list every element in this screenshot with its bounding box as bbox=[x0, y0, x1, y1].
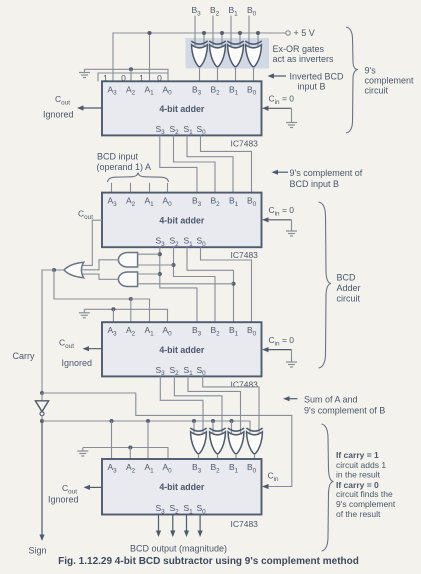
wire S2 adder4 output arrow bbox=[172, 515, 174, 535]
ground for constant 0 cells of adder1 bbox=[84, 69, 86, 73]
wire carry to adder4 Cin (jogs right) bbox=[42, 393, 292, 487]
svg-text:If carry = 1: If carry = 1 bbox=[336, 450, 379, 460]
junction dot carry node bbox=[52, 268, 56, 272]
svg-text:Ex-OR gates: Ex-OR gates bbox=[273, 44, 325, 54]
svg-text:Adder: Adder bbox=[337, 283, 361, 293]
svg-text:complement: complement bbox=[365, 76, 415, 86]
wire U10 output to adder4 B1 bbox=[235, 454, 237, 459]
wire G1 input from S2 bbox=[138, 264, 174, 266]
XOR gate U4 (inverter for B0) bbox=[246, 45, 262, 67]
junction dot control to XOR U9 bbox=[211, 419, 215, 423]
stub correction to A2 adder3 bbox=[130, 299, 132, 322]
adder4 Cout wire with arrow (ignored) bbox=[87, 486, 103, 488]
adder2 Cin = 0 wire bbox=[265, 219, 292, 221]
wire OR G3 output carry node bbox=[54, 269, 64, 271]
wire U1 output to adder1 B3 bbox=[199, 67, 201, 82]
junction dot U3 bbox=[238, 31, 242, 35]
stub operand A0 into adder2 bbox=[167, 183, 169, 193]
svg-text:BCD: BCD bbox=[337, 273, 357, 283]
inverter bubble bbox=[40, 412, 44, 416]
svg-text:of the result: of the result bbox=[336, 509, 381, 519]
adder1 Cout wire with arrow (ignored) bbox=[80, 107, 102, 109]
stub control to XOR U9 left input bbox=[212, 421, 214, 435]
junction dot S3 to AND G2 bbox=[158, 272, 162, 276]
svg-text:Carry: Carry bbox=[13, 351, 35, 361]
wire S0 adder3 to XOR U11 input bbox=[203, 376, 259, 435]
stub ground to A2 adder4 bbox=[129, 448, 131, 460]
junction dot ground to A2 adder4 bbox=[128, 445, 132, 449]
svg-text:9's: 9's bbox=[365, 66, 377, 76]
wire S3 adder4 output arrow bbox=[158, 515, 160, 535]
arrow pointing to 9's complement bus bbox=[275, 171, 289, 173]
wire S1 adder3 to XOR U10 input bbox=[188, 376, 241, 435]
inverted carry control line to XOR row2 and adder4 constants bbox=[42, 421, 250, 435]
wire carry node to left carry rail bbox=[42, 270, 54, 393]
arrow pointing to sum bus bbox=[286, 398, 298, 400]
constant input register 1 0 1 0 cells bbox=[98, 73, 168, 82]
4-bit adder U7 (IC7483) body bbox=[102, 322, 262, 376]
svg-text:9's complement of B: 9's complement of B bbox=[304, 406, 385, 416]
svg-text:BCD output (magnitude): BCD output (magnitude) bbox=[130, 544, 227, 554]
arrow pointing to inverted B bus bbox=[271, 75, 287, 77]
XOR gate U8 (conditional inverter S3) bbox=[191, 432, 207, 454]
AND gate G2 (S3·S1) bbox=[118, 272, 137, 287]
svg-text:Inverted BCD: Inverted BCD bbox=[290, 72, 345, 82]
wire B3 into XOR U1 left input bbox=[194, 16, 196, 49]
wire inverted carry rail down to Sign bbox=[41, 416, 43, 421]
svg-text:input B: input B bbox=[298, 82, 326, 92]
junction dot ground to A2 cell bbox=[129, 67, 133, 71]
XOR gate U2 (inverter for B2) bbox=[210, 45, 226, 67]
brace 9's complement circuit bbox=[346, 27, 358, 133]
wire S1 adder1 to B1 adder2 bbox=[187, 135, 233, 192]
svg-text:Fig. 1.12.29 4-bit BCD subtra: Fig. 1.12.29 4-bit BCD subtractor using … bbox=[58, 556, 359, 567]
ground for adder4 constant inputs bbox=[82, 448, 84, 452]
XOR gate U9 (conditional inverter S2) bbox=[210, 432, 226, 454]
ground wire to A2 A0 adder4 bbox=[83, 448, 168, 460]
wire S2 adder1 to B2 adder2 bbox=[174, 135, 216, 192]
+5V supply rail wire bbox=[113, 33, 286, 73]
svg-text:4-bit adder: 4-bit adder bbox=[159, 482, 205, 492]
wire G2 input from S1 bbox=[138, 283, 234, 285]
wire +5V rail drop to constant A1 cell bbox=[149, 33, 151, 73]
stub +5V to XOR U3 right input bbox=[239, 33, 241, 48]
ground at adder2 Cin bbox=[291, 228, 293, 232]
wire S0 adder2 to B0 adder3 bbox=[201, 247, 252, 322]
svg-text:4-bit adder: 4-bit adder bbox=[159, 215, 205, 225]
4-bit adder U12 (IC7483) body bbox=[102, 459, 262, 515]
svg-text:9's complement of: 9's complement of bbox=[290, 168, 363, 178]
4-bit adder U5 (IC7483) body bbox=[102, 81, 262, 135]
svg-text:circuit: circuit bbox=[365, 86, 389, 96]
AND gate G1 (S3·S2) bbox=[118, 253, 137, 268]
svg-text:+ 5 V: + 5 V bbox=[294, 28, 315, 38]
wire S3 adder3 to XOR U8 input bbox=[160, 376, 203, 435]
svg-text:circuit adds 1: circuit adds 1 bbox=[336, 460, 386, 470]
wire carry node down to correction constant line bbox=[54, 270, 131, 299]
stub control to XOR U8 left input bbox=[193, 421, 195, 435]
overbrace for operand A inputs bbox=[108, 173, 169, 183]
wire correction to A1 adder3 bbox=[131, 299, 150, 322]
svg-text:IC7483: IC7483 bbox=[231, 250, 259, 260]
XOR gate U10 (conditional inverter S1) bbox=[228, 432, 244, 454]
junction dot on +5V rail at x149 bbox=[147, 31, 151, 35]
svg-text:IC7483: IC7483 bbox=[231, 379, 259, 389]
4-bit adder U6 (IC7483) body bbox=[102, 193, 262, 248]
wire U9 output to adder4 B2 bbox=[217, 454, 219, 459]
brace if-carry note bbox=[322, 424, 334, 551]
wire S2 adder3 to XOR U9 input bbox=[174, 376, 222, 435]
wire B2 into XOR U2 left input bbox=[212, 16, 214, 49]
wire B1 into XOR U3 left input bbox=[230, 16, 232, 49]
wire S1 adder4 output arrow bbox=[186, 515, 188, 535]
svg-text:circuit: circuit bbox=[337, 294, 361, 304]
OR gate G3 (carry detect) bbox=[64, 262, 84, 278]
+5V open terminal bbox=[286, 31, 290, 35]
svg-text:4-bit adder: 4-bit adder bbox=[159, 104, 205, 114]
svg-text:Sign: Sign bbox=[29, 546, 47, 556]
stub operand A1 into adder2 bbox=[149, 183, 151, 193]
wire G2 output to OR G3 bbox=[83, 274, 119, 279]
svg-text:4-bit adder: 4-bit adder bbox=[159, 345, 205, 355]
junction dot control to XOR U8 bbox=[192, 419, 196, 423]
junction dot carry rail to Cin of adder4 bbox=[40, 391, 44, 395]
svg-text:Ignored: Ignored bbox=[62, 358, 93, 368]
stub +5V to XOR U2 right input bbox=[221, 33, 223, 48]
svg-text:BCD input B: BCD input B bbox=[290, 179, 340, 189]
svg-text:IC7483: IC7483 bbox=[231, 519, 259, 529]
svg-text:(operand 1) A: (operand 1) A bbox=[97, 162, 152, 172]
junction dot ground to A3 adder3 bbox=[111, 307, 115, 311]
junction dot control to XOR U10 bbox=[229, 419, 233, 423]
shaded panel behind Ex-OR inverter gates bbox=[186, 38, 270, 69]
stub ground to A2 cell bbox=[130, 69, 132, 81]
stub operand A2 into adder2 bbox=[130, 183, 132, 193]
XOR gate U3 (inverter for B1) bbox=[228, 45, 244, 67]
junction dot U1 bbox=[202, 31, 206, 35]
wire S3 adder1 to B3 adder2 bbox=[160, 135, 197, 192]
stub operand A3 into adder2 bbox=[111, 183, 113, 193]
wire S0 adder1 to B0 adder2 bbox=[201, 135, 252, 192]
junction dot inverted carry node bbox=[40, 419, 44, 423]
stub control to A3 adder4 bbox=[111, 421, 113, 459]
wire G1 input from S3 bbox=[138, 253, 160, 255]
junction dot U2 bbox=[220, 31, 224, 35]
ground at adder3 Cin bbox=[291, 359, 293, 363]
inverter Q1 triangle on carry rail bbox=[41, 393, 43, 401]
svg-text:Ignored: Ignored bbox=[48, 495, 79, 505]
stub +5V to XOR U1 right input bbox=[203, 33, 205, 48]
stub control to XOR U10 left input bbox=[231, 421, 233, 435]
svg-text:9's complement: 9's complement bbox=[336, 499, 396, 509]
svg-text:act as inverters: act as inverters bbox=[273, 54, 335, 64]
wire B0 into XOR U4 left input bbox=[248, 16, 250, 49]
wire U11 output to adder4 B0 bbox=[254, 454, 256, 459]
wire U8 output to adder4 B3 bbox=[198, 454, 200, 459]
wire G2 input from S3 bbox=[138, 273, 160, 275]
junction dot S1 branch to AND G2 bbox=[231, 282, 235, 286]
junction dot S2 to AND G1 bbox=[171, 263, 175, 267]
adder2 Cout wire down to OR gate G3 input bbox=[83, 220, 102, 265]
wire U2 output to adder1 B2 bbox=[217, 67, 219, 82]
stub control to A1 adder4 bbox=[147, 421, 149, 459]
adder3 Cin = 0 wire bbox=[265, 349, 292, 351]
svg-text:BCD input: BCD input bbox=[97, 152, 139, 162]
junction dot correction to A2 adder3 bbox=[129, 297, 133, 301]
ground wire to constant cells A2 A0 bbox=[85, 69, 169, 81]
stub +5V to XOR U4 right input bbox=[257, 33, 259, 48]
ground at adder1 Cin bbox=[291, 119, 293, 123]
wire U4 output to adder1 B0 bbox=[253, 67, 255, 82]
brace BCD Adder circuit bbox=[319, 202, 332, 368]
stub ground to A3 adder3 bbox=[112, 309, 114, 322]
adder3 Cout wire with arrow (ignored) bbox=[86, 348, 103, 350]
svg-text:IC7483: IC7483 bbox=[231, 138, 259, 148]
wire U3 output to adder1 B1 bbox=[235, 67, 237, 82]
svg-text:in the result: in the result bbox=[336, 470, 381, 480]
svg-text:Sum of A and: Sum of A and bbox=[304, 395, 358, 405]
ground for adder3 constant inputs bbox=[83, 309, 85, 313]
wire S0 adder4 output arrow bbox=[199, 515, 201, 535]
svg-text:Ignored: Ignored bbox=[43, 110, 74, 120]
XOR gate U1 (inverter for B3) bbox=[192, 45, 208, 67]
junction dot control to A3 adder4 bbox=[109, 419, 113, 423]
junction dot control to A1 adder4 bbox=[146, 419, 150, 423]
XOR gate U11 (conditional inverter S0) bbox=[247, 432, 263, 454]
svg-text:circuit finds the: circuit finds the bbox=[336, 489, 393, 499]
junction dot S3 to AND G1 bbox=[158, 252, 162, 256]
wire Sign output bbox=[41, 421, 43, 538]
ground wire to A3 A0 adder3 bbox=[84, 309, 167, 322]
adder1 Cin = 0 wire bbox=[265, 107, 292, 109]
wire S3 adder2 down (taps to AND gates) then to B3 adder3 bbox=[160, 247, 197, 322]
wire G1 output to OR G3 bbox=[83, 260, 119, 270]
wire S2 adder2 to B2 adder3 bbox=[174, 247, 216, 322]
wire S1 adder2 to B1 adder3 bbox=[187, 247, 234, 322]
junction dot U4 bbox=[256, 31, 260, 35]
